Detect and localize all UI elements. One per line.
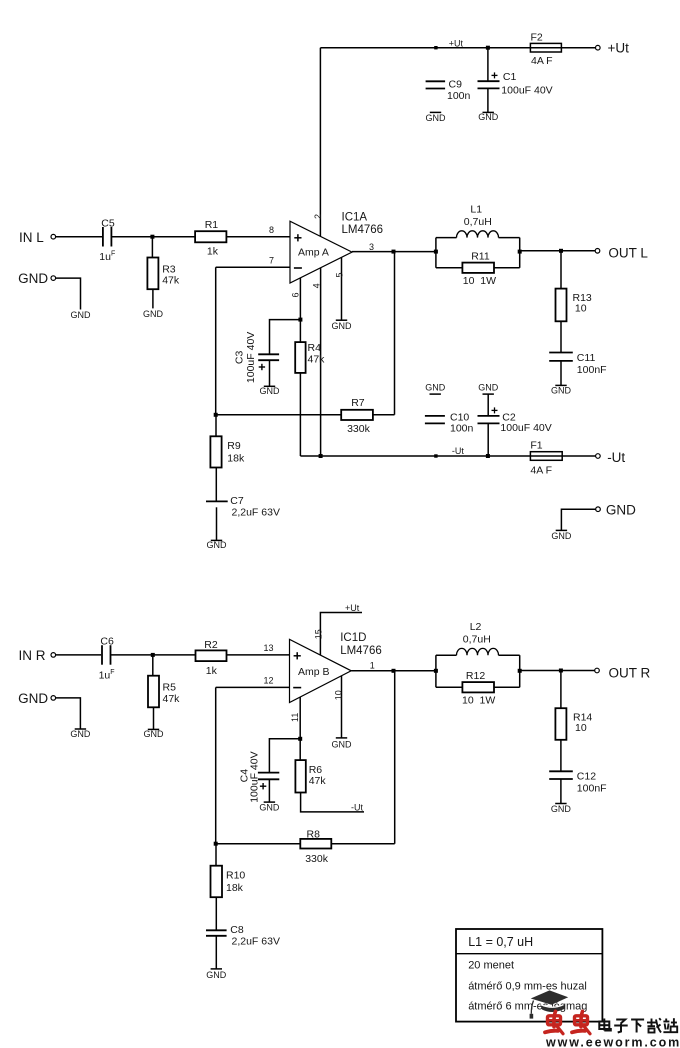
wire C1 to GND [487, 88, 489, 112]
junction output split B [434, 669, 438, 673]
svg-text:GND: GND [18, 271, 48, 286]
wire node to R1 [152, 236, 195, 238]
wire pin 6 down [299, 278, 301, 320]
svg-text:10 1W: 10 1W [463, 275, 496, 287]
terminal IN L [51, 234, 56, 239]
svg-text:LM4766: LM4766 [342, 224, 384, 236]
svg-text:+Ut: +Ut [449, 38, 464, 48]
svg-text:GND: GND [425, 382, 446, 392]
svg-text:R12: R12 [466, 670, 485, 682]
plus mark C3 [259, 366, 265, 368]
svg-text:2,2uF 63V: 2,2uF 63V [232, 936, 280, 948]
resistor R1 [195, 231, 226, 242]
op-amp IC1A Amp A [290, 221, 352, 283]
wire C4 to GND [268, 779, 270, 802]
svg-text:GND: GND [478, 382, 499, 392]
ground below C1 [483, 111, 494, 113]
wire R13 to C11 [560, 321, 562, 352]
wire node to R9 [215, 415, 217, 437]
wire L1-R11 join [519, 238, 521, 268]
wire feedback node down B [215, 687, 217, 843]
wire C3 to GND [269, 360, 271, 386]
svg-text:1: 1 [370, 660, 375, 670]
resistor R14 [555, 708, 566, 740]
wire pin11 node to C4 [269, 739, 300, 773]
svg-text:Amp A: Amp A [298, 247, 329, 259]
svg-text:L1 = 0,7 uH: L1 = 0,7 uH [468, 935, 533, 949]
svg-text:F1: F1 [530, 439, 542, 451]
svg-text:www.eeworm.com: www.eeworm.com [545, 1036, 680, 1048]
wire join to OUT R [520, 670, 595, 672]
wire pin 7 [216, 266, 290, 268]
resistor R11 [462, 263, 494, 273]
resistor R4 [295, 342, 305, 373]
junction rail/C2 [486, 454, 490, 458]
svg-text:L1: L1 [470, 204, 482, 216]
ground pin 10 [336, 737, 347, 739]
wire GND-L terminal [56, 278, 81, 309]
svg-text:GND: GND [478, 112, 499, 122]
terminal IN R [51, 653, 56, 658]
svg-text:10: 10 [333, 690, 343, 700]
wire C6 to node [111, 654, 153, 656]
junction rail/C10 [434, 454, 437, 457]
junction rail/pin4 [319, 454, 323, 458]
capacitor C1 [478, 80, 500, 82]
svg-text:F: F [111, 251, 115, 258]
ground pin 5 [336, 319, 347, 321]
junction rail/C1 [486, 46, 490, 50]
ground input R [75, 728, 86, 730]
wire to R12 [436, 686, 463, 688]
svg-text:10: 10 [575, 722, 587, 734]
svg-text:LM4766: LM4766 [340, 645, 382, 657]
resistor R2 [196, 650, 227, 661]
svg-text:F2: F2 [531, 32, 543, 44]
ground below C3 [264, 385, 275, 387]
capacitor C6 [101, 645, 103, 665]
wire C5 to node [111, 236, 152, 238]
ground below C12 [555, 803, 566, 805]
capacitor C2 [478, 415, 500, 417]
resistor R9 [210, 436, 221, 467]
ground below C8 [211, 968, 222, 970]
wire node down to R3 [151, 237, 153, 258]
minus input mark B [293, 687, 301, 689]
wire L2-R12 join [519, 655, 521, 687]
svg-text:100nF: 100nF [577, 782, 607, 794]
svg-text:100n: 100n [450, 423, 474, 435]
svg-text:GND: GND [606, 502, 636, 517]
svg-text:11: 11 [290, 713, 300, 722]
resistor R8 [300, 839, 331, 849]
wire node to R8 [216, 843, 301, 845]
svg-text:10 1W: 10 1W [462, 695, 495, 707]
svg-text:C7: C7 [230, 495, 244, 507]
terminal GND right [596, 507, 601, 512]
svg-text:GND: GND [206, 970, 227, 980]
plus input mark A [294, 237, 301, 239]
junction R14 tap [559, 669, 563, 673]
svg-text:R8: R8 [307, 829, 321, 841]
terminal GND input L [51, 276, 56, 281]
svg-text:GND: GND [144, 729, 165, 739]
wire pin 5 to ground [341, 257, 343, 320]
wire C11 to GND [560, 361, 562, 386]
capacitor C10 [425, 415, 445, 417]
wire L1 to join [499, 237, 520, 239]
svg-text:100n: 100n [447, 90, 471, 102]
junction rail/C9 [434, 46, 437, 49]
resistor R3 [147, 258, 158, 290]
terminal GND input R [51, 696, 56, 701]
wire GND-R terminal [56, 698, 81, 729]
svg-text:OUT L: OUT L [608, 246, 648, 261]
svg-text:1k: 1k [206, 665, 218, 677]
wire pin 10 to ground [341, 676, 343, 738]
svg-text:GND: GND [426, 113, 447, 123]
svg-text:47k: 47k [308, 353, 326, 365]
wire node to R7 [216, 414, 342, 416]
wire to L2 [436, 654, 457, 656]
svg-text:GND: GND [551, 804, 572, 814]
wire pin 15 +Ut stub [320, 613, 362, 656]
svg-text:47k: 47k [309, 775, 327, 787]
op-amp IC1D Amp B [290, 639, 352, 702]
wire R10 to C8 [215, 897, 217, 930]
junction pin11/C4/R6 [298, 737, 302, 741]
wire GND to C2 [487, 394, 489, 416]
junction output/feedback [392, 250, 396, 254]
svg-text:3: 3 [369, 242, 374, 252]
svg-text:IN L: IN L [19, 230, 44, 245]
svg-text:C11: C11 [577, 352, 596, 364]
wire pin 2 to +Ut rail [319, 48, 321, 237]
svg-text:R6: R6 [309, 764, 323, 776]
inductor L1 [457, 231, 499, 238]
svg-text:+Ut: +Ut [608, 41, 630, 56]
junction node IN-L/R3 [150, 235, 154, 239]
wire R7 to feedback riser [373, 414, 395, 416]
svg-text:100uF 40V: 100uF 40V [501, 85, 552, 97]
junction join out [518, 250, 522, 254]
capacitor C3 [258, 353, 279, 355]
svg-text:47k: 47k [163, 693, 181, 705]
svg-text:2,2uF 63V: 2,2uF 63V [232, 506, 280, 518]
svg-text:C6: C6 [100, 636, 114, 648]
ground below C9 [430, 111, 441, 113]
fuse F2 [530, 43, 561, 52]
wire IN R to C6 [56, 654, 101, 656]
junction output split [434, 250, 438, 254]
terminal OUT R [595, 668, 600, 673]
svg-text:18k: 18k [226, 882, 244, 894]
ground above C2 [483, 393, 494, 395]
resistor R13 [556, 289, 567, 322]
plus input mark B [294, 655, 301, 657]
svg-text:OUT R: OUT R [609, 665, 651, 680]
resistor R7 [341, 410, 373, 420]
wire node to R2 [153, 654, 196, 656]
wire C7 to GND [216, 507, 218, 540]
wire feedback node down [215, 267, 217, 415]
plus mark C1 [492, 74, 498, 76]
svg-text:8: 8 [269, 225, 274, 235]
svg-text:F: F [110, 669, 114, 676]
svg-text:10: 10 [575, 303, 587, 315]
wire L1-R11 split [435, 238, 437, 268]
svg-text:20 menet: 20 menet [468, 960, 514, 972]
wire L2-R12 split [435, 655, 437, 687]
wire R4 down to -Ut rail [299, 373, 301, 456]
svg-text:330k: 330k [347, 423, 371, 435]
wire IN L to C5 [56, 236, 102, 238]
resistor R6 [295, 760, 305, 792]
wire node to R10 [215, 844, 217, 866]
wire feedback riser B [394, 671, 396, 844]
svg-text:1u: 1u [99, 669, 111, 681]
svg-text:6: 6 [291, 292, 301, 297]
capacitor C8 [206, 929, 227, 931]
svg-text:R7: R7 [351, 397, 365, 409]
svg-text:C8: C8 [230, 924, 244, 936]
svg-text:GND: GND [551, 531, 572, 541]
wire rail to C1 [487, 48, 489, 81]
svg-text:R10: R10 [226, 869, 245, 881]
svg-text:Amp B: Amp B [298, 666, 330, 678]
+Ut supply rail [320, 47, 595, 49]
wire join to OUT L [520, 250, 596, 252]
capacitor C7 [206, 500, 228, 502]
svg-text:átmérő 6 mm-es légmag: átmérő 6 mm-es légmag [468, 1001, 587, 1013]
svg-text:18k: 18k [227, 452, 245, 464]
svg-text:2: 2 [313, 214, 323, 219]
svg-text:GND: GND [332, 739, 353, 749]
wire node to R6 [299, 739, 301, 760]
svg-text:R4: R4 [308, 342, 322, 354]
svg-text:GND: GND [259, 803, 280, 813]
svg-text:R5: R5 [163, 682, 177, 694]
wire pin 12 [216, 686, 290, 688]
svg-text:12: 12 [263, 675, 273, 685]
svg-text:4A F: 4A F [531, 55, 553, 67]
svg-text:1k: 1k [207, 245, 219, 257]
svg-text:GND: GND [143, 309, 164, 319]
wire R9 to C7 [215, 468, 217, 502]
wire R11 to join [494, 267, 520, 269]
svg-text:C12: C12 [577, 770, 596, 782]
svg-text:4: 4 [312, 283, 322, 288]
svg-text:átmérő 0,9 mm-es huzal: átmérő 0,9 mm-es huzal [468, 981, 587, 993]
svg-text:-Ut: -Ut [607, 450, 625, 465]
svg-text:R9: R9 [227, 440, 241, 452]
fuse F1 [530, 452, 562, 461]
wire C2 to rail [487, 423, 489, 456]
ground right terminal [556, 529, 567, 531]
wire GND terminal [561, 509, 595, 530]
resistor R5 [148, 676, 159, 708]
ground below C7 [211, 539, 222, 541]
junction feedback/R9 [214, 413, 218, 417]
wire R1 to pin 8 [226, 236, 290, 238]
svg-text:R3: R3 [162, 263, 176, 275]
svg-text:IC1D: IC1D [340, 632, 366, 644]
svg-text:330k: 330k [305, 853, 329, 865]
wire R8 to feedback riser B [331, 843, 394, 845]
plus mark C4 [260, 785, 266, 787]
svg-text:15: 15 [314, 629, 324, 639]
svg-text:5: 5 [334, 272, 344, 277]
wire R12 to join [494, 686, 520, 688]
svg-text:0,7uH: 0,7uH [464, 216, 492, 228]
svg-text:C1: C1 [503, 71, 517, 83]
wire R6 to -Ut stub [301, 793, 364, 812]
terminal OUT L [595, 249, 600, 254]
svg-text:R2: R2 [204, 639, 218, 651]
junction R13 tap [559, 249, 563, 253]
capacitor C5 [102, 227, 104, 247]
svg-text:GND: GND [260, 386, 281, 396]
svg-text:L2: L2 [470, 621, 482, 633]
ground below C4 [264, 801, 275, 803]
svg-text:C9: C9 [449, 78, 463, 90]
wire pin6 node to C3 [270, 320, 301, 355]
ground below C11 [555, 384, 566, 386]
svg-text:100nF: 100nF [577, 364, 607, 376]
wire C8 to GND [215, 936, 217, 969]
wire pin 11 down [299, 697, 301, 739]
junction output/feedback B [392, 669, 396, 673]
svg-text:4A F: 4A F [530, 465, 552, 477]
junction join out B [518, 669, 522, 673]
resistor R12 [462, 682, 494, 692]
wire R3 to GND [152, 289, 154, 308]
minus input mark A [294, 267, 302, 269]
svg-text:13: 13 [263, 643, 273, 653]
capacitor C12 [549, 770, 573, 772]
svg-text:C5: C5 [101, 217, 115, 229]
svg-text:GND: GND [18, 691, 48, 706]
watermark chongchong red characters [545, 1011, 563, 1034]
terminal +Ut [596, 45, 601, 50]
wire C12 to GND [560, 779, 562, 804]
terminal -Ut [596, 454, 601, 459]
svg-text:-Ut: -Ut [351, 802, 363, 812]
svg-text:+Ut: +Ut [345, 603, 360, 613]
wire to L1 [436, 237, 457, 239]
inductor L2 [457, 648, 499, 655]
svg-text:IC1A: IC1A [342, 212, 368, 224]
svg-text:7: 7 [269, 255, 274, 265]
junction feedback/R10 [214, 842, 218, 846]
wire feedback riser to output [394, 252, 396, 415]
junction pin6/C3/R4 [298, 318, 302, 322]
wire pin 4 to -Ut rail [320, 268, 322, 456]
svg-text:100uF 40V: 100uF 40V [500, 422, 551, 434]
svg-text:100uF 40V: 100uF 40V [245, 332, 257, 383]
ground above C10 [430, 393, 441, 395]
wire output B [351, 670, 436, 672]
wire tap to R14 [560, 671, 562, 709]
svg-text:GND: GND [71, 310, 92, 320]
wire tap to R13 [560, 251, 562, 289]
wire L2 to join [499, 654, 520, 656]
plus mark C2 [492, 409, 498, 411]
svg-text:1u: 1u [99, 251, 111, 263]
wire node down to R5 [152, 655, 154, 676]
wire R14 to C12 [560, 740, 562, 772]
capacitor C4 [258, 772, 279, 774]
svg-text:GND: GND [551, 385, 572, 395]
junction node IN-R/R5 [151, 653, 155, 657]
svg-text:GND: GND [207, 540, 228, 550]
svg-text:GND: GND [332, 321, 353, 331]
capacitor C9 [426, 80, 446, 82]
ground below R5 [148, 728, 159, 730]
svg-text:-Ut: -Ut [452, 446, 464, 456]
-Ut supply rail [300, 455, 595, 457]
svg-text:C3: C3 [233, 351, 245, 365]
wire R2 to pin 13 [227, 654, 290, 656]
svg-text:100uF 40V: 100uF 40V [249, 751, 261, 802]
svg-text:IN R: IN R [19, 648, 46, 663]
wire output [352, 251, 436, 253]
svg-text:R1: R1 [205, 219, 219, 231]
resistor R10 [211, 866, 223, 898]
capacitor C11 [549, 352, 573, 354]
info box [456, 929, 602, 1022]
svg-text:R11: R11 [471, 251, 490, 263]
wire to R11 [436, 267, 463, 269]
watermark text dianzi xiazaizhan [599, 1019, 611, 1031]
svg-text:47k: 47k [162, 275, 180, 287]
wire R5 to GND [153, 707, 155, 729]
watermark graduation cap [530, 990, 569, 1018]
svg-text:0,7uH: 0,7uH [463, 634, 491, 646]
svg-text:GND: GND [70, 729, 91, 739]
wire node to R4 [299, 320, 301, 343]
